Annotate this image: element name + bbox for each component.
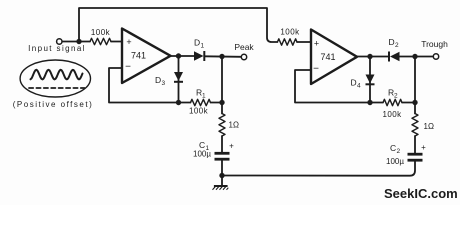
- junction D3 bottom rail: [176, 100, 181, 105]
- diode D1: [194, 51, 204, 61]
- wire node B vertical (Trough column): [414, 57, 416, 114]
- wire U1 output to D1: [171, 55, 195, 57]
- junction node B top: [412, 54, 417, 59]
- resistor R1 100k: [191, 99, 211, 105]
- svg-text:(Positive offset): (Positive offset): [13, 100, 93, 109]
- svg-text:2: 2: [394, 93, 398, 100]
- diode D3: [174, 72, 183, 82]
- svg-text:100k: 100k: [280, 28, 300, 37]
- svg-text:1Ω: 1Ω: [229, 121, 239, 130]
- wire R2 right to node B: [402, 102, 415, 104]
- wire U2 feedback loop to inverting input: [295, 70, 383, 103]
- svg-text:C: C: [390, 143, 396, 153]
- svg-text:C: C: [199, 140, 205, 150]
- wire D4 branch vertical: [369, 57, 371, 103]
- wire U2 output to D2 cathode: [357, 56, 389, 58]
- junction node A rail: [219, 100, 224, 105]
- svg-text:+: +: [421, 143, 426, 152]
- svg-text:741: 741: [320, 52, 335, 62]
- svg-text:−: −: [125, 62, 131, 73]
- resistor 1 ohm (right): [412, 114, 418, 137]
- svg-text:100µ: 100µ: [193, 150, 211, 159]
- svg-text:Peak: Peak: [234, 42, 254, 52]
- resistor 100k (U1 input): [90, 38, 111, 44]
- svg-text:D: D: [389, 37, 395, 47]
- wire top loop from input node to op-amp U2 input resistor: [79, 8, 277, 42]
- svg-text:−: −: [313, 64, 319, 75]
- op-amp U1 741: [122, 29, 171, 84]
- wire input resistor to op-amp U1: [111, 41, 122, 43]
- resistor 1 ohm (left): [219, 114, 225, 137]
- svg-text:100k: 100k: [383, 110, 403, 119]
- junction node A top: [219, 54, 224, 59]
- capacitor C1 plates: [215, 153, 230, 159]
- junction input node: [76, 39, 81, 44]
- wire input terminal to node: [62, 41, 90, 43]
- svg-text:SeekIC.com: SeekIC.com: [384, 186, 458, 201]
- svg-text:2: 2: [395, 42, 399, 49]
- svg-text:2: 2: [397, 148, 401, 155]
- svg-text:D: D: [194, 38, 200, 48]
- Trough output terminal: [433, 54, 438, 59]
- ground: [213, 176, 229, 190]
- op-amp U2 741: [311, 30, 357, 85]
- wire ground rail to C2 bottom: [222, 162, 415, 176]
- svg-text:+: +: [314, 39, 319, 49]
- wire U2 input resistor to op-amp U2: [297, 41, 311, 43]
- wire node A vertical (Peak column): [221, 57, 223, 114]
- svg-text:1Ω: 1Ω: [424, 122, 434, 131]
- diode D4: [366, 75, 375, 85]
- wire D2 anode to Trough node and terminal: [400, 56, 434, 58]
- Peak output terminal: [241, 54, 246, 59]
- wire C1 bottom to ground node: [221, 161, 223, 176]
- svg-text:741: 741: [131, 51, 146, 61]
- wire R1 right to node A: [211, 102, 223, 104]
- svg-text:Input signal: Input signal: [28, 44, 86, 53]
- svg-text:D: D: [155, 75, 161, 85]
- svg-text:+: +: [126, 37, 131, 47]
- wire D3 branch vertical: [178, 56, 180, 103]
- diode D2: [389, 52, 400, 62]
- resistor 100k (U2 input): [277, 39, 297, 45]
- input terminal: [57, 39, 62, 44]
- input signal sine wave: [31, 70, 83, 80]
- svg-text:3: 3: [162, 80, 166, 87]
- svg-text:100k: 100k: [189, 107, 209, 116]
- junction ground node: [219, 173, 224, 178]
- junction node B rail: [412, 100, 417, 105]
- svg-text:Trough: Trough: [421, 39, 448, 49]
- wire U1 feedback loop to inverting input: [109, 68, 191, 103]
- wire D1 cathode to Peak node and terminal: [205, 55, 241, 58]
- svg-text:1: 1: [202, 93, 206, 100]
- svg-text:4: 4: [357, 83, 361, 90]
- svg-text:+: +: [229, 142, 234, 151]
- capacitor C2 plates: [408, 154, 423, 160]
- junction U1 output: [176, 53, 181, 58]
- junction D4 bottom rail: [367, 100, 372, 105]
- wire node B to capacitor C2: [414, 136, 416, 153]
- wire node A to capacitor C1: [221, 136, 223, 152]
- svg-text:100µ: 100µ: [386, 157, 404, 166]
- input signal offset dashed line: [29, 87, 85, 89]
- resistor R2 100k: [383, 99, 402, 105]
- svg-text:1: 1: [201, 43, 205, 50]
- input signal ellipse: [20, 60, 90, 97]
- junction U2 output: [367, 54, 372, 59]
- svg-text:D: D: [351, 78, 357, 88]
- svg-text:100k: 100k: [91, 28, 111, 37]
